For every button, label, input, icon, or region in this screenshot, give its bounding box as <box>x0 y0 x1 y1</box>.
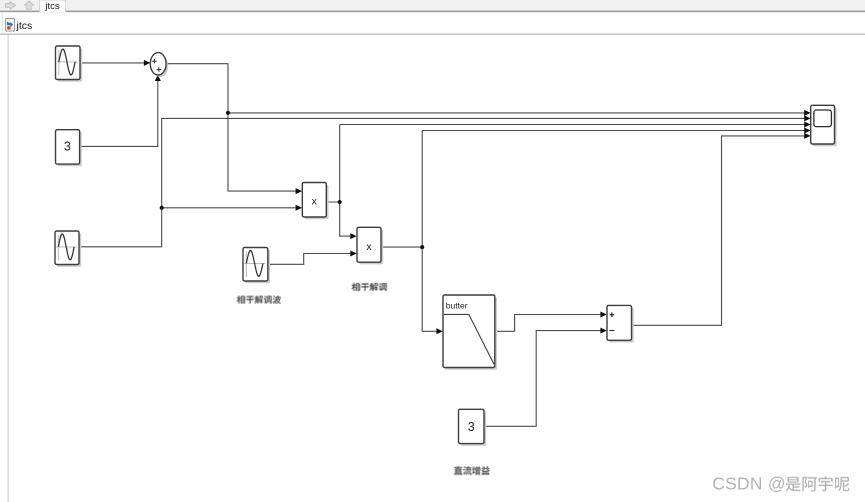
svg-text:jtcs: jtcs <box>44 1 60 12</box>
constant block Constant1 value 3 <box>58 132 82 166</box>
svg-text:x: x <box>366 241 372 253</box>
butterworth filter block butter <box>445 297 497 370</box>
label: DC gain under Constant2 <box>454 466 490 475</box>
label: coherent demodulation under Product2 <box>352 283 388 291</box>
junction dot Product1 output <box>338 200 342 204</box>
disabled up-arrow button <box>25 1 34 9</box>
label: xiangan jietiao bo (coherent demod carrier) under Sine3 <box>237 296 281 304</box>
svg-text:jtcs: jtcs <box>16 20 33 32</box>
wire: Product2 output, up to scope line 4, down to Butter input <box>381 131 805 332</box>
svg-text:butter: butter <box>446 301 468 311</box>
junction dot Product2 output <box>420 245 424 249</box>
wire: Sine1 output to Add <box>80 62 145 64</box>
wire: branch to Product1 input2 <box>162 207 296 209</box>
constant block Constant2 value 3 <box>461 412 487 446</box>
tab bar background <box>0 0 865 11</box>
wire: Sum2 output to scope line 5 <box>632 136 805 325</box>
breadcrumb bar <box>0 12 865 33</box>
junction dot on Add output branch <box>226 111 230 115</box>
svg-text:3: 3 <box>64 140 71 154</box>
sum block Add (ellipse) <box>152 55 168 77</box>
svg-text:3: 3 <box>468 420 475 434</box>
product block Product1 <box>305 185 329 220</box>
svg-text:x: x <box>312 195 318 207</box>
product block Product2 <box>359 230 383 265</box>
canvas left edge <box>7 35 9 502</box>
wire: Constant2 to Sum2 minus input <box>484 331 600 427</box>
wire: Butter output to Sum2 plus input <box>495 315 601 332</box>
junction dot Sine2 branch <box>160 206 164 210</box>
wire: Add output down to Product1 input1 <box>167 64 296 191</box>
wire: Product1 output, up to scope line 3, down to Product2 input1 <box>326 125 804 237</box>
watermark username <box>785 476 850 492</box>
breadcrumb left edge <box>1 13 3 34</box>
scope block Scope <box>813 108 837 147</box>
wire: scope line 1 <box>228 112 805 114</box>
disabled forward-arrow button <box>6 2 16 10</box>
breadcrumb model icon <box>6 19 15 31</box>
sine wave block Sine3 (carrier) <box>245 250 270 284</box>
active tab jtcs <box>40 0 66 12</box>
wire: Sine3 to Product2 input2 <box>268 254 351 265</box>
sum block Sum2 (plus minus) <box>609 308 634 343</box>
sine wave block Sine1 <box>58 48 82 81</box>
scope input arrowheads <box>804 110 810 116</box>
wire: Sine2 output up to scope line 2 <box>79 118 805 246</box>
svg-text:CSDN @: CSDN @ <box>712 474 786 494</box>
sine wave block Sine2 <box>57 233 81 267</box>
wire: Constant1 to Add bottom input <box>80 81 158 147</box>
